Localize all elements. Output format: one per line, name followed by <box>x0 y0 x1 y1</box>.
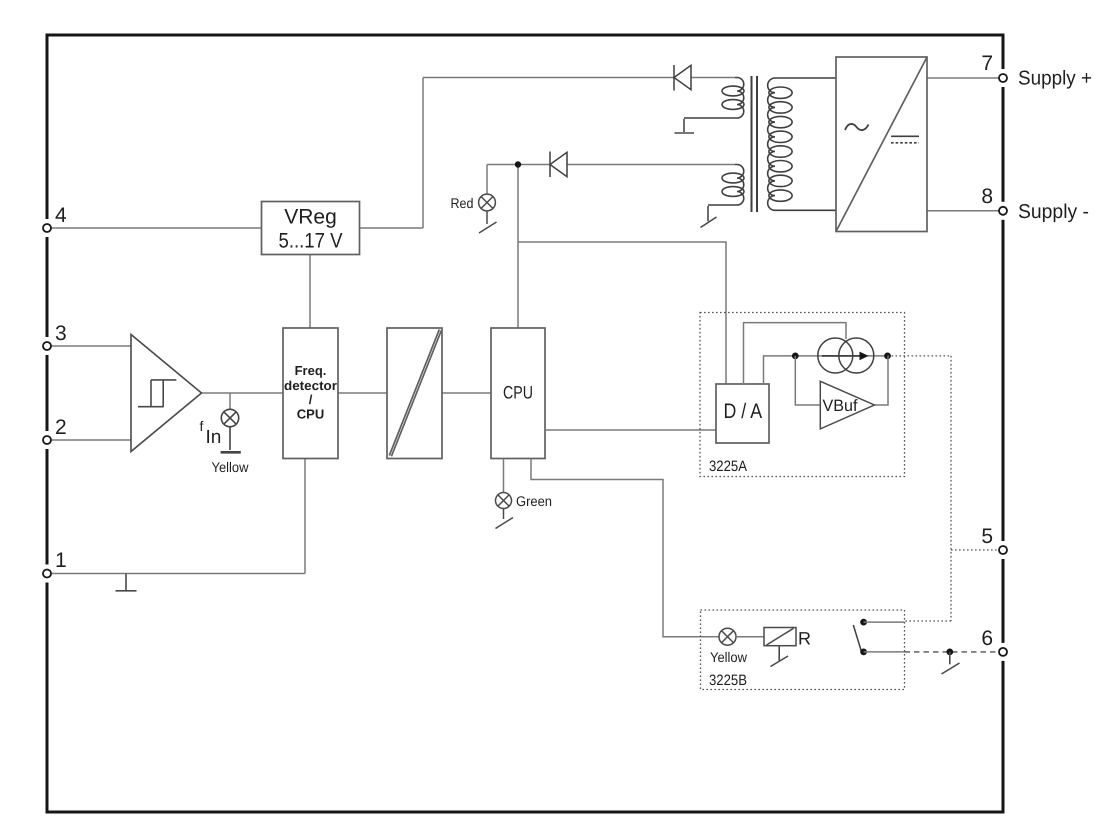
outer enclosure border <box>47 35 1003 812</box>
red LED drop wire <box>486 165 488 195</box>
pin 3 <box>43 342 51 350</box>
svg-text:CPU: CPU <box>503 383 533 403</box>
wire VReg to freq detector <box>309 255 311 328</box>
wire node A down to CPU <box>517 165 519 329</box>
LED green <box>496 493 514 529</box>
wire pin2 to comparator <box>49 439 131 441</box>
DC symbol <box>891 136 919 143</box>
dotted net from node C to pin5 riser <box>888 355 952 357</box>
wire node B through current source to node C <box>795 355 887 357</box>
svg-text:/: / <box>309 392 313 407</box>
primary 1 ground <box>675 119 695 133</box>
svg-text:Red: Red <box>451 195 474 211</box>
border gaps at pins <box>47 69 1003 661</box>
svg-text:Yellow: Yellow <box>710 649 748 665</box>
LED red <box>479 194 497 233</box>
wire CPU to relay drive <box>531 459 719 637</box>
wire top run to diode D1 <box>423 77 674 79</box>
svg-text:Yellow: Yellow <box>212 459 250 475</box>
hysteresis symbol <box>138 380 176 407</box>
svg-text:VBuf: VBuf <box>823 397 858 415</box>
current source Q1 <box>818 338 874 373</box>
svg-text:3: 3 <box>55 322 67 345</box>
pin 8 <box>999 207 1007 215</box>
VBuf feedback wire <box>795 356 820 405</box>
dashed net to pin6 <box>905 651 1000 653</box>
svg-text:7: 7 <box>981 52 993 75</box>
pin 1 <box>43 570 51 578</box>
regulator VReg box <box>262 202 360 255</box>
wire comparator to freq detector <box>202 392 284 394</box>
wire switch top contact <box>864 621 905 623</box>
LED yellow relay <box>719 628 736 645</box>
svg-text:5: 5 <box>981 525 993 548</box>
relay coil termination <box>771 646 789 667</box>
svg-text:R: R <box>798 629 811 649</box>
wire node A horizontal red-led run <box>487 164 550 166</box>
svg-text:8: 8 <box>981 185 993 208</box>
converter U1 AC/DC box <box>836 57 927 232</box>
ground on pin1 wire <box>116 574 137 591</box>
primary 2 termination <box>701 206 717 228</box>
node A junction dot <box>515 161 521 167</box>
transformer T1 primary winding 2 <box>708 165 744 206</box>
svg-text:1: 1 <box>55 549 67 572</box>
wire pin1 riser to freq detector bottom <box>304 459 306 574</box>
wire pin4 to VReg <box>49 227 261 229</box>
VBuf output wire <box>874 356 888 405</box>
dotted branch to pin5 <box>951 549 999 551</box>
wire CPU-net to D/A top run <box>518 242 726 384</box>
comparator U2 <box>131 335 202 452</box>
wire freq detector to isolator <box>338 392 387 394</box>
wire riser vertical <box>422 78 424 229</box>
CPU box <box>491 328 545 459</box>
svg-text:3225A: 3225A <box>709 458 747 475</box>
diode D1 <box>674 65 691 91</box>
svg-text:6: 6 <box>981 627 993 650</box>
pin6 net termination <box>942 652 960 674</box>
svg-text:Green: Green <box>516 493 552 509</box>
svg-text:4: 4 <box>55 204 67 227</box>
pin 7 <box>999 74 1007 82</box>
wire pin1 horizontal <box>49 573 305 575</box>
pin 2 <box>43 436 51 444</box>
wire AC/DC to pin7 <box>927 77 999 79</box>
relay R coil box <box>764 628 796 646</box>
svg-text:2: 2 <box>55 416 67 439</box>
svg-text:detector: detector <box>284 378 337 393</box>
wire LED to relay coil <box>736 636 764 638</box>
3225B dotted box <box>701 610 905 690</box>
wire CPU to D/A <box>545 429 716 431</box>
wire CPU bottom to green LED <box>503 459 505 493</box>
label Freq. detector / CPU <box>284 363 337 422</box>
svg-text:Supply +: Supply + <box>1018 68 1092 90</box>
current source arrow <box>822 352 869 361</box>
f In LED drop <box>229 393 231 409</box>
switch top contact dot <box>860 619 867 626</box>
svg-text:f: f <box>200 418 204 434</box>
freq detector box <box>283 328 338 459</box>
svg-text:VReg: VReg <box>284 206 337 229</box>
pin 5 <box>999 546 1007 554</box>
svg-text:Freq.: Freq. <box>295 363 327 378</box>
svg-text:In: In <box>206 427 222 448</box>
dotted riser to switch <box>950 356 952 621</box>
op-amp VBuf <box>820 381 874 429</box>
wire AC/DC to pin8 <box>927 210 999 212</box>
3225A dotted box <box>700 313 905 477</box>
diode D2 <box>550 152 567 178</box>
wire D/A top to node B <box>764 356 796 384</box>
switch bottom contact dot <box>860 649 867 656</box>
AC symbol <box>845 124 869 130</box>
svg-text:Supply -: Supply - <box>1018 201 1089 223</box>
transformer T1 secondary winding <box>768 78 836 210</box>
wire switch bottom contact <box>864 651 905 653</box>
transformer T1 primary winding 1 <box>684 78 744 119</box>
LED yellow f In <box>221 409 241 452</box>
wire pin3 to comparator <box>49 345 131 347</box>
transformer core <box>752 76 758 212</box>
pin6 net junction dot <box>946 649 953 656</box>
svg-text:CPU: CPU <box>297 407 324 422</box>
wire VReg to riser <box>360 227 423 229</box>
dotted run to switch top contact <box>905 620 952 622</box>
isolator box <box>387 328 442 459</box>
node B junction dot <box>792 353 799 360</box>
pin 4 <box>43 224 51 232</box>
node C junction dot <box>884 353 891 360</box>
svg-text:3225B: 3225B <box>709 672 747 689</box>
svg-text:5...17 V: 5...17 V <box>279 230 343 253</box>
wire diode D2 to transformer primary 2 <box>567 164 735 166</box>
wire isolator to CPU <box>442 392 491 394</box>
wire diode D1 to transformer primary 1 <box>691 77 735 79</box>
svg-text:D / A: D / A <box>724 400 763 423</box>
switch S1 <box>853 625 861 652</box>
D/A box <box>716 384 769 443</box>
pin 6 <box>999 648 1007 656</box>
wire D/A loop to current source top <box>744 323 847 384</box>
